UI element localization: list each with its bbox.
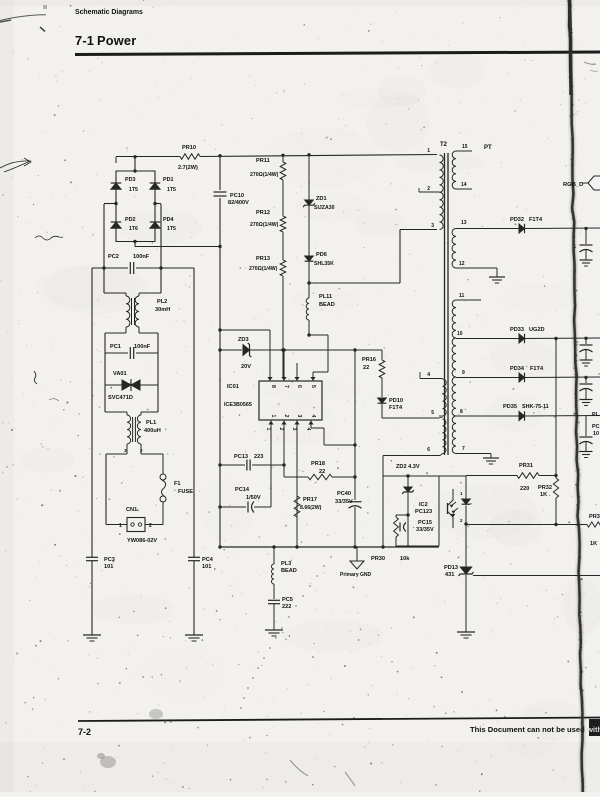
svg-text:F1T4: F1T4: [530, 366, 544, 372]
svg-text:PD34: PD34: [510, 366, 525, 372]
svg-text:6: 6: [427, 447, 430, 453]
svg-text:PC: PC: [592, 424, 600, 430]
svg-text:6: 6: [296, 385, 302, 388]
svg-text:BEAD: BEAD: [319, 302, 335, 308]
svg-text:PD13: PD13: [444, 565, 458, 571]
svg-text:PC5: PC5: [282, 597, 293, 603]
svg-text:VA01: VA01: [113, 371, 127, 377]
svg-text:7-1: 7-1: [75, 33, 94, 48]
svg-text:This Document can not be used: This Document can not be used: [470, 725, 585, 734]
svg-text:CN1: CN1: [126, 507, 137, 513]
svg-text:PD6: PD6: [316, 252, 327, 258]
svg-text:1K: 1K: [590, 541, 597, 547]
svg-text:2: 2: [283, 415, 289, 418]
svg-text:PC3: PC3: [104, 557, 115, 563]
svg-text:PR17: PR17: [303, 497, 317, 503]
svg-text:9: 9: [462, 370, 465, 376]
svg-text:2: 2: [278, 428, 284, 431]
svg-text:1T5: 1T5: [167, 226, 176, 232]
svg-text:PR16: PR16: [362, 357, 376, 363]
svg-text:PR13: PR13: [256, 256, 270, 262]
svg-text:10k: 10k: [400, 556, 410, 562]
svg-text:270Ω(1/4W): 270Ω(1/4W): [250, 172, 279, 178]
svg-text:F1T4: F1T4: [529, 217, 543, 223]
svg-text:2: 2: [149, 523, 152, 529]
svg-text:4: 4: [305, 428, 311, 431]
svg-text:14: 14: [461, 182, 467, 188]
svg-text:2.7(2W): 2.7(2W): [178, 165, 198, 171]
svg-text:8: 8: [270, 385, 276, 388]
svg-text:33/35V: 33/35V: [335, 499, 353, 505]
svg-text:PL: PL: [592, 412, 600, 418]
svg-text:PD10: PD10: [389, 398, 403, 404]
svg-text:100nF: 100nF: [134, 344, 151, 350]
svg-text:4: 4: [427, 372, 430, 378]
svg-text:12: 12: [459, 261, 465, 267]
svg-text:270Ω(1/4W): 270Ω(1/4W): [249, 266, 278, 272]
svg-text:RGB_D: RGB_D: [563, 182, 583, 188]
svg-text:1K: 1K: [540, 492, 547, 498]
svg-text:223: 223: [254, 454, 263, 460]
svg-text:IC2: IC2: [419, 502, 428, 508]
svg-text:PC40: PC40: [337, 491, 351, 497]
svg-text:PR31: PR31: [519, 463, 533, 469]
svg-text:PR32: PR32: [538, 485, 552, 491]
svg-text:1: 1: [265, 428, 271, 431]
svg-text:PD33: PD33: [510, 327, 524, 333]
svg-text:1T5: 1T5: [167, 187, 176, 193]
svg-text:2: 2: [427, 186, 430, 192]
svg-text:PL2: PL2: [157, 299, 167, 305]
svg-text:IC01: IC01: [227, 384, 239, 390]
svg-text:ZD2 4.3V: ZD2 4.3V: [396, 464, 420, 470]
svg-text:20V: 20V: [241, 364, 251, 370]
svg-text:1/50V: 1/50V: [246, 495, 261, 501]
svg-text:PD32: PD32: [510, 217, 524, 223]
svg-text:82/400V: 82/400V: [228, 200, 249, 206]
svg-text:1: 1: [119, 523, 122, 529]
svg-text:PC2: PC2: [108, 254, 119, 260]
svg-text:PL1: PL1: [146, 420, 156, 426]
svg-text:ICE3B0565: ICE3B0565: [224, 402, 252, 408]
svg-text:PC1: PC1: [110, 344, 121, 350]
svg-text:PC10: PC10: [230, 193, 244, 199]
svg-text:ZD1: ZD1: [316, 196, 327, 202]
svg-text:30mH: 30mH: [155, 307, 170, 313]
svg-text:1T5: 1T5: [129, 187, 138, 193]
svg-text:PD1: PD1: [163, 177, 174, 183]
svg-text:13: 13: [461, 220, 467, 226]
svg-text:222: 222: [282, 604, 291, 610]
svg-text:101: 101: [104, 564, 113, 570]
svg-text:3: 3: [296, 415, 302, 418]
svg-text:PC13: PC13: [234, 454, 248, 460]
svg-text:PR30: PR30: [371, 556, 385, 562]
svg-text:15: 15: [462, 144, 468, 150]
svg-text:1: 1: [427, 148, 430, 154]
svg-text:431: 431: [445, 572, 454, 578]
svg-text:FUSE: FUSE: [178, 489, 193, 495]
svg-text:4: 4: [310, 415, 316, 418]
svg-text:PR3: PR3: [589, 514, 600, 520]
svg-text:PR18: PR18: [311, 461, 325, 467]
svg-text:8.66(2W): 8.66(2W): [300, 505, 322, 511]
svg-text:SVC471D: SVC471D: [108, 395, 133, 401]
svg-text:ZD3: ZD3: [238, 337, 249, 343]
svg-text:YW086-02V: YW086-02V: [127, 538, 157, 544]
svg-text:7: 7: [283, 385, 289, 388]
svg-text:BEAD: BEAD: [281, 568, 297, 574]
svg-text:33/35V: 33/35V: [416, 527, 434, 533]
svg-text:PL11: PL11: [319, 294, 332, 300]
svg-text:5: 5: [431, 410, 434, 416]
svg-text:PD3: PD3: [125, 177, 136, 183]
svg-text:3: 3: [291, 428, 297, 431]
svg-text:8: 8: [460, 409, 463, 415]
svg-text:with: with: [586, 725, 600, 734]
svg-text:PC14: PC14: [235, 487, 250, 493]
svg-text:22: 22: [363, 365, 369, 371]
svg-text:PC123: PC123: [415, 509, 432, 515]
svg-text:PR10: PR10: [182, 145, 196, 151]
svg-text:SHL35K: SHL35K: [314, 261, 334, 267]
svg-text:10: 10: [457, 331, 463, 337]
svg-text:PC15: PC15: [418, 520, 432, 526]
svg-text:PR11: PR11: [256, 158, 270, 164]
svg-text:220: 220: [520, 486, 529, 492]
svg-text:PD35: PD35: [503, 404, 517, 410]
svg-text:SHK-75-11: SHK-75-11: [522, 404, 549, 410]
svg-text:PD2: PD2: [125, 217, 136, 223]
svg-text:Power: Power: [97, 33, 136, 48]
svg-text:5: 5: [310, 385, 316, 388]
svg-text:PR12: PR12: [256, 210, 270, 216]
svg-text:PD4: PD4: [163, 217, 174, 223]
svg-text:1T6: 1T6: [129, 226, 138, 232]
svg-text:270Ω(1/4W): 270Ω(1/4W): [250, 222, 279, 228]
svg-text:101: 101: [202, 564, 211, 570]
svg-text:PT: PT: [484, 145, 492, 151]
svg-text:PC4: PC4: [202, 557, 214, 563]
svg-text:7: 7: [462, 446, 465, 452]
svg-text:10: 10: [593, 431, 599, 437]
svg-text:11: 11: [459, 293, 465, 299]
svg-text:F1T4: F1T4: [389, 405, 403, 411]
svg-text:7-2: 7-2: [78, 727, 91, 737]
svg-text:Schematic Diagrams: Schematic Diagrams: [75, 9, 143, 16]
svg-text:100nF: 100nF: [133, 254, 150, 260]
svg-text:T2: T2: [440, 142, 448, 148]
svg-text:22: 22: [319, 469, 325, 475]
svg-text:UG2D: UG2D: [529, 327, 545, 333]
svg-text:400uH: 400uH: [144, 428, 161, 434]
svg-text:F1: F1: [174, 481, 181, 487]
svg-text:1: 1: [270, 415, 276, 418]
svg-text:Primary GND: Primary GND: [340, 572, 372, 578]
svg-text:PL3: PL3: [281, 561, 291, 567]
svg-text:3: 3: [431, 223, 434, 229]
svg-text:SlJZA30: SlJZA30: [314, 205, 335, 211]
